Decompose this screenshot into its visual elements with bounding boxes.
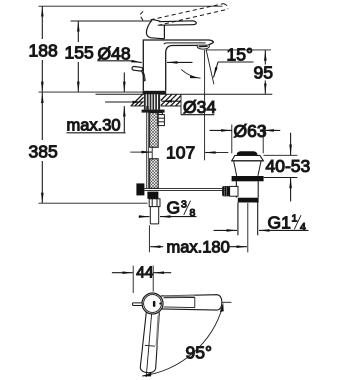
deck top line [96, 93, 182, 95]
faucet base plinth [143, 91, 167, 94]
max.180 left extension line [148, 225, 150, 252]
spout chamfer line [164, 43, 206, 44]
drain plug cap (dark) [237, 151, 257, 155]
drain tailpipe [238, 203, 258, 236]
dimension 385 [29, 93, 58, 204]
svg-text:95: 95 [254, 63, 273, 83]
svg-text:4: 4 [300, 221, 306, 233]
aerator outlet vertical reference line [204, 50, 206, 160]
svg-text:1: 1 [292, 213, 298, 225]
pull-rod knob on body [132, 66, 145, 81]
drain body [236, 181, 258, 197]
svg-text:44: 44 [136, 265, 154, 282]
pop-up lever ball joint [236, 186, 238, 196]
deck right cut edge [180, 94, 182, 114]
hose end fitting (dark) [147, 192, 158, 199]
arc end tick [222, 301, 232, 303]
label D34 with underline and arrows [105, 97, 216, 117]
label D48 with leader arrows [98, 44, 193, 64]
top view: faucet body circle [142, 293, 163, 314]
supply hose upper segment (braided) [150, 113, 159, 148]
pop-up lever cylinder [230, 186, 238, 196]
drain washer lower (dark) [238, 198, 259, 203]
mounting nut on stud [158, 113, 165, 126]
pop-up linkage horizontal rod [144, 188, 224, 190]
top view: horizontal handle [161, 295, 222, 310]
top view: cartridge tick and dot [153, 301, 156, 307]
supply hose lower segment (braided) [150, 159, 159, 189]
pop-up lever knob (dark) [222, 186, 230, 196]
dimension 188 [29, 6, 58, 92]
label G1 1/4 with arrows [214, 213, 309, 234]
lever handle (solid, horizontal) [159, 21, 196, 25]
dimension max.180 [150, 238, 247, 256]
95 degree swing arc [142, 306, 223, 376]
lever nose / skirt [146, 19, 164, 38]
extension line deck level right (95 bottom) [181, 93, 272, 95]
dimension D63 [210, 121, 281, 154]
drain flange [232, 155, 264, 160]
dimension 155 [65, 21, 94, 92]
lever raised position (dashed phantom) [140, 4, 228, 26]
15 degree tilted line [206, 50, 214, 84]
top view: 44 extension lines [132, 266, 134, 293]
svg-text:max.30: max.30 [67, 117, 121, 135]
pop-up linkage clamp (dark) [136, 183, 144, 195]
label max.30 with underline [67, 73, 126, 135]
svg-text:Ø63: Ø63 [234, 121, 267, 141]
15 degree arc with arrow [181, 69, 200, 78]
pop-up rod (vertical) [147, 106, 149, 189]
top view: pull-rod knob (left tick) [132, 303, 142, 306]
top view: rotated handle (95 deg position) [140, 311, 161, 373]
svg-text:107: 107 [166, 143, 195, 163]
svg-text:G1: G1 [268, 213, 291, 233]
svg-text:385: 385 [29, 142, 58, 162]
extension line aerator level (95 top) [206, 49, 271, 51]
label G 3/8 with arrows [139, 198, 197, 219]
extension line hose bottom (385) [39, 202, 148, 204]
svg-text:155: 155 [65, 43, 94, 63]
svg-text:3: 3 [181, 199, 187, 211]
extension line deck top left [39, 91, 143, 93]
drain centerline [247, 203, 249, 252]
deck hatching right block [161, 94, 181, 106]
dimension 107 [130, 143, 228, 163]
dimension 95 [254, 50, 273, 94]
svg-text:Ø34: Ø34 [183, 97, 216, 117]
threaded shank through deck (knurled) [144, 94, 160, 109]
drain bell [234, 161, 262, 176]
hose tube end [150, 207, 158, 224]
svg-text:188: 188 [29, 41, 58, 61]
drain washer upper (dark) [232, 176, 264, 181]
dimension 44 [112, 265, 171, 282]
svg-text:40-53: 40-53 [266, 156, 311, 176]
deck bottom lines [131, 105, 144, 107]
svg-text:max.180: max.180 [167, 238, 230, 256]
arc arrowheads [142, 373, 152, 377]
aerator at spout tip [197, 45, 209, 49]
deck hatching left block [131, 94, 144, 106]
svg-text:95°: 95° [186, 343, 212, 363]
top view: rotated handle centerline [146, 314, 151, 377]
stabilizer plate under deck [142, 110, 165, 113]
extension line lever top (155) [71, 20, 152, 22]
dimension 40-53 [264, 133, 311, 202]
extension line top of lever (188 top) [39, 5, 223, 7]
hose gap centerline (107 extension) [151, 146, 153, 160]
svg-text:G: G [167, 198, 181, 218]
hose connection nut [149, 199, 160, 207]
label 15 deg with leader [214, 45, 254, 78]
faucet body outline with spout [143, 40, 213, 91]
